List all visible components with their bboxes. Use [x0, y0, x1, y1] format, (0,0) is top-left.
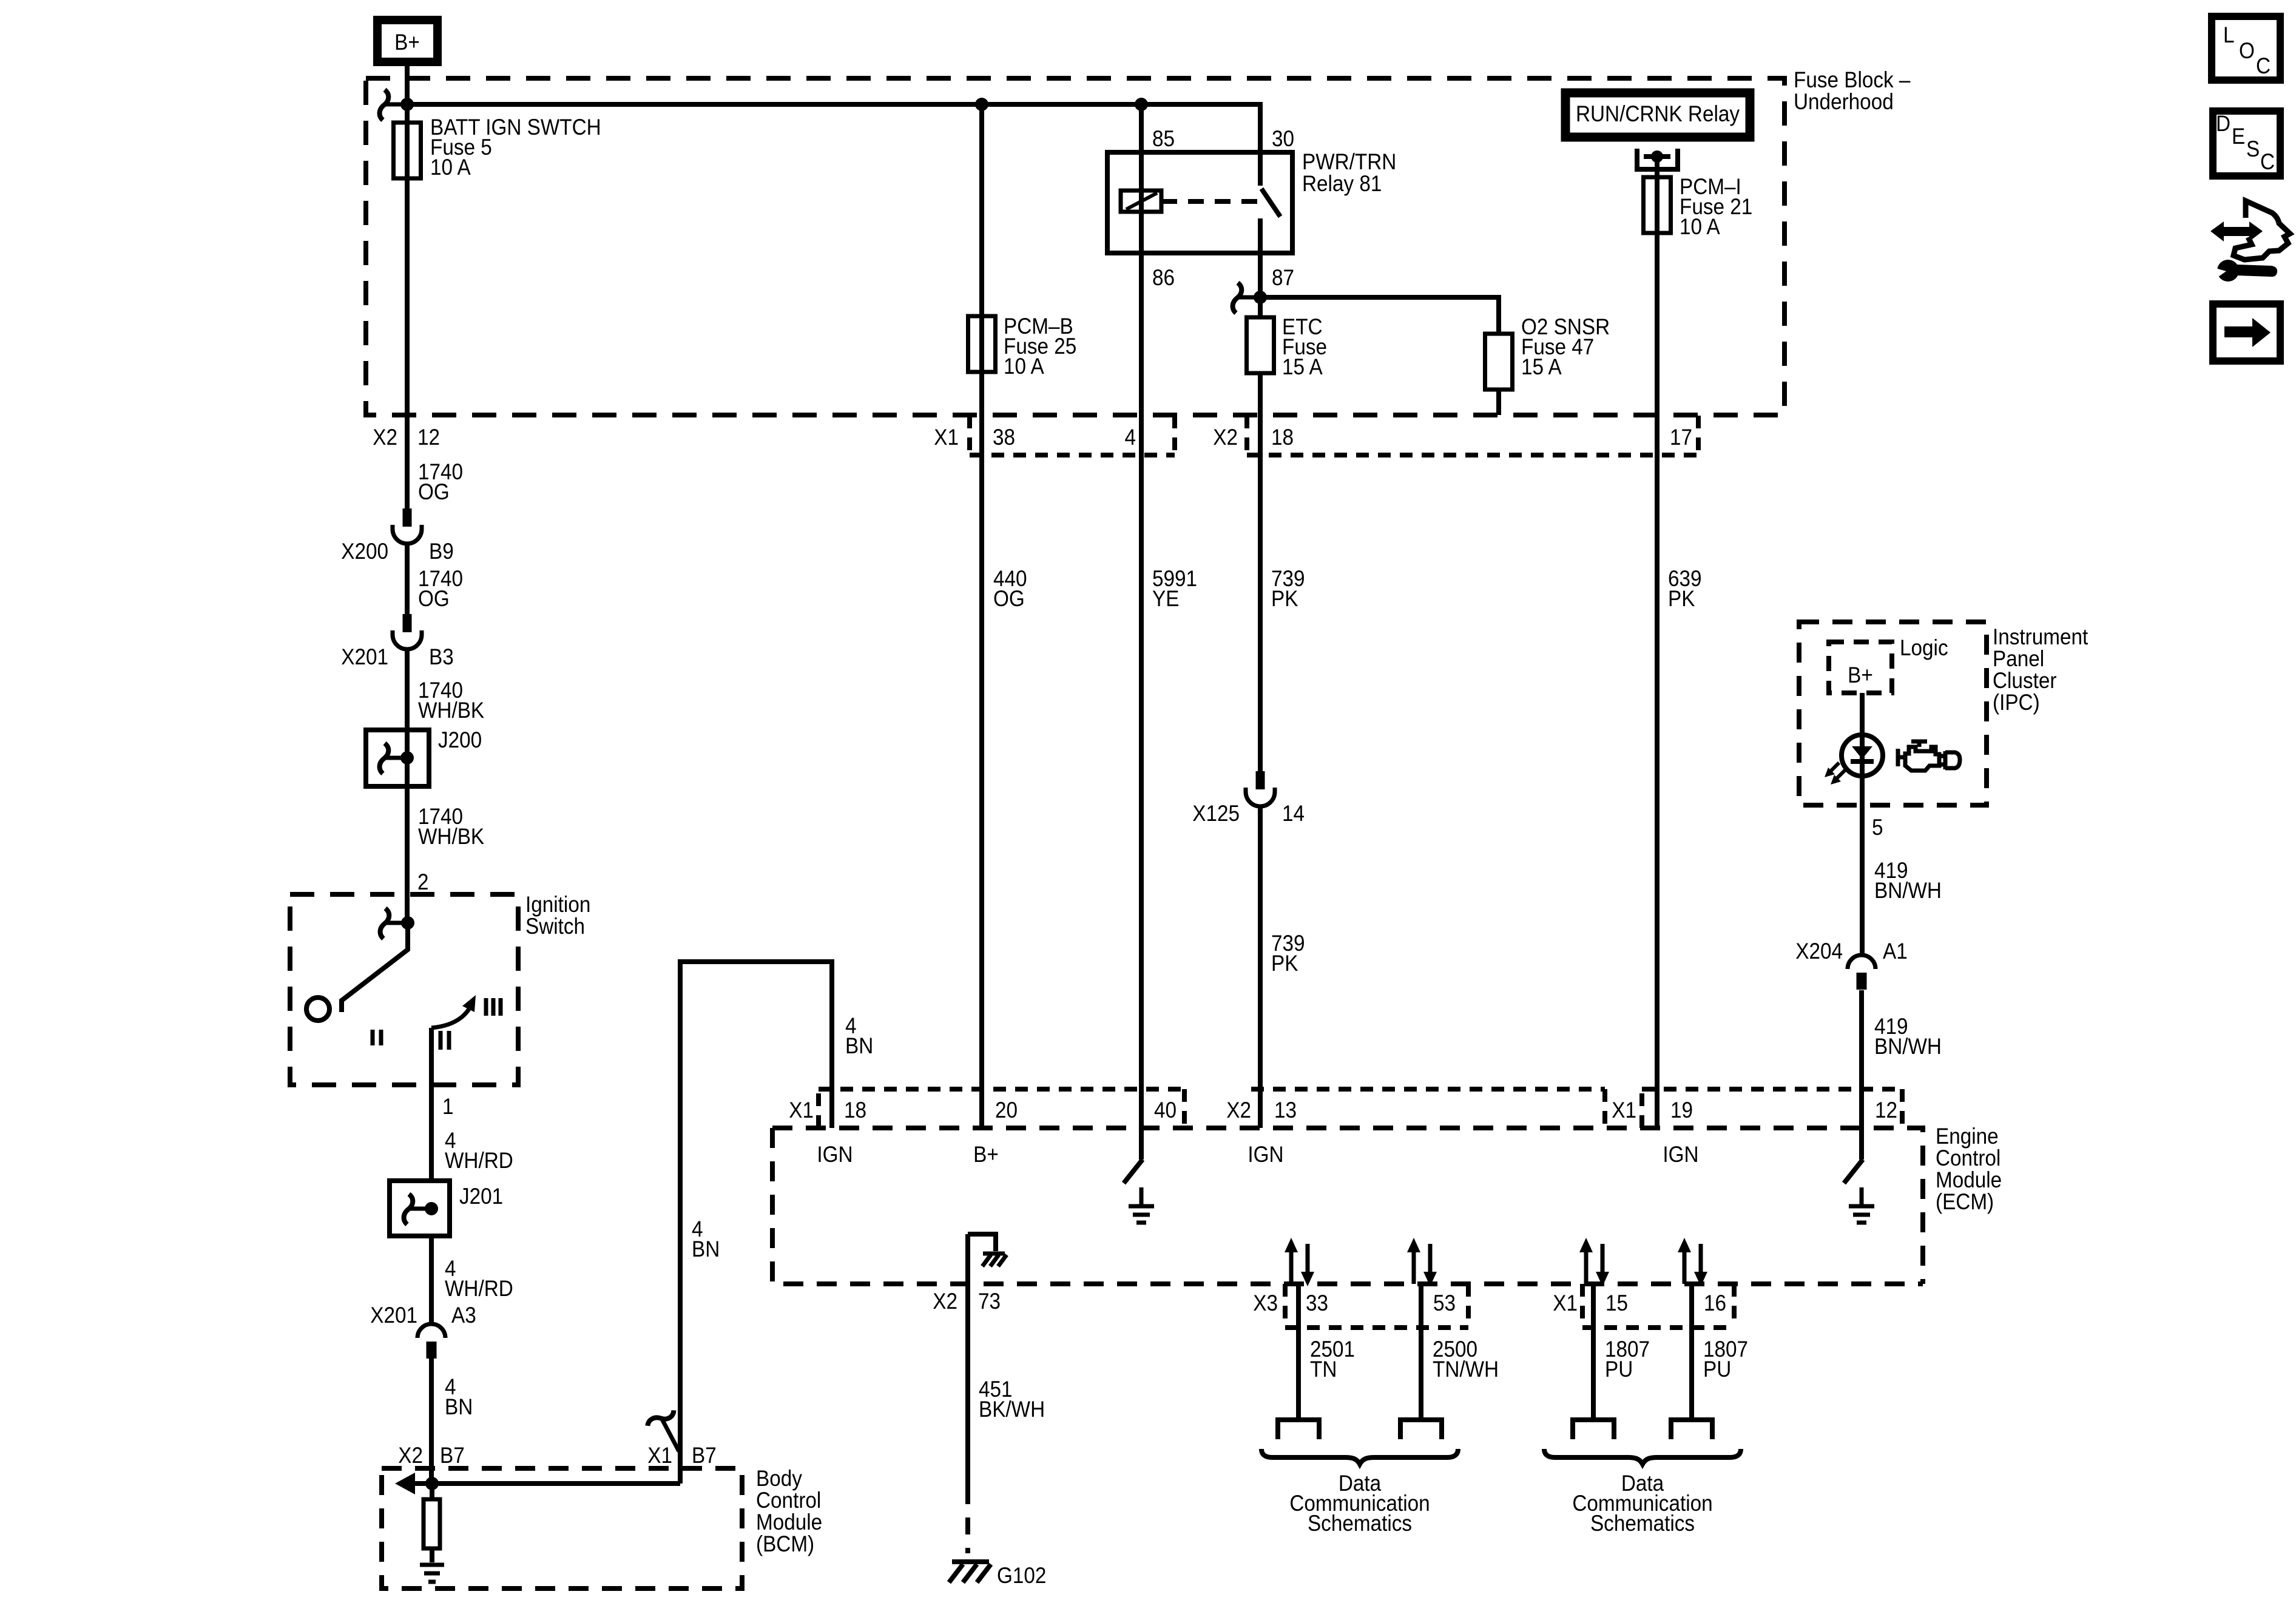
relay coil — [1121, 191, 1161, 212]
svg-text:53: 53 — [1433, 1291, 1456, 1315]
svg-text:B7: B7 — [692, 1443, 717, 1468]
ECM dashed box — [772, 1128, 1923, 1284]
svg-text:10 A: 10 A — [1680, 214, 1720, 239]
svg-text:B+: B+ — [1848, 663, 1873, 687]
inline connector X125 14 — [1256, 771, 1265, 789]
svg-text:OG: OG — [418, 586, 450, 611]
connector row X1 38 / 4 fine dashed box — [970, 416, 1175, 455]
LED light arrows — [1836, 770, 1845, 779]
ignition switch dashed box — [290, 894, 518, 1085]
svg-text:30: 30 — [1272, 126, 1294, 151]
svg-text:18: 18 — [844, 1098, 866, 1122]
svg-text:Control: Control — [1936, 1146, 2001, 1170]
junction node relay socket — [1651, 150, 1663, 163]
svg-text:Module: Module — [1936, 1167, 2002, 1192]
brace right data group — [1544, 1449, 1741, 1464]
svg-text:PK: PK — [1271, 951, 1298, 976]
relay socket bracket — [1637, 149, 1678, 169]
ECM internal switch to ground pin 12 — [1844, 1160, 1863, 1183]
ignition switch blade — [342, 923, 408, 1012]
svg-text:X201: X201 — [341, 644, 388, 669]
svg-text:85: 85 — [1152, 126, 1175, 151]
clip symbol ignition input — [380, 908, 390, 939]
svg-text:X2: X2 — [1213, 425, 1238, 450]
svg-text:IGN: IGN — [1663, 1142, 1698, 1167]
ground symbol BCM — [420, 1565, 444, 1582]
svg-text:J201: J201 — [459, 1184, 503, 1209]
wire ECM pin 73 to G102 — [965, 1234, 970, 1487]
svg-text:Switch: Switch — [525, 914, 585, 939]
svg-text:BN: BN — [845, 1033, 873, 1058]
data flow arrows pin 16 — [1683, 1251, 1687, 1284]
svg-text:X2: X2 — [373, 425, 397, 450]
wire X201 A3 to BCM — [429, 1359, 434, 1484]
icon adjust/hand with wrench — [2221, 227, 2252, 236]
svg-text:PWR/TRN: PWR/TRN — [1302, 149, 1396, 174]
LED cathode bar — [1851, 759, 1874, 764]
icon LOC box — [2212, 16, 2280, 80]
fuse F5 — [394, 123, 421, 178]
svg-text:Instrument: Instrument — [1993, 624, 2088, 649]
svg-text:1: 1 — [442, 1094, 454, 1119]
junction node at J200 splice — [400, 751, 414, 765]
svg-text:X204: X204 — [1795, 939, 1843, 964]
svg-text:WH/RD: WH/RD — [445, 1276, 513, 1301]
ECM top connector fine dashed row — [819, 1089, 1184, 1128]
svg-text:X2: X2 — [398, 1443, 423, 1468]
svg-text:Logic: Logic — [1900, 635, 1948, 660]
ground symbol ECM pin 40 — [1129, 1187, 1154, 1223]
wire serial data pin 33 — [1296, 1284, 1301, 1420]
svg-text:BN/WH: BN/WH — [1874, 1034, 1942, 1059]
wire PCM-I fuse to ECM pin 19 — [1655, 157, 1660, 1128]
wire X201 to ignition switch — [405, 650, 410, 923]
arrow continuation in BCM — [395, 1473, 415, 1494]
data flow arrows pin 53 — [1412, 1251, 1416, 1284]
svg-text:B9: B9 — [429, 539, 454, 564]
svg-text:X1: X1 — [647, 1443, 672, 1468]
svg-text:BN: BN — [445, 1394, 473, 1419]
svg-text:G102: G102 — [997, 1563, 1046, 1588]
svg-text:BN/WH: BN/WH — [1874, 878, 1942, 903]
junction node at ignition input — [401, 916, 414, 930]
junction node at pin 87 tap — [1254, 291, 1267, 304]
svg-text:C: C — [2260, 149, 2275, 174]
svg-text:Body: Body — [756, 1466, 802, 1491]
ignition switch contact circle — [306, 998, 329, 1021]
bus terminator pin 16 — [1671, 1420, 1712, 1439]
svg-text:2: 2 — [417, 869, 429, 894]
IPC logic dashed box — [1829, 642, 1892, 693]
wire IPC lamp to ECM pin 12 — [1859, 990, 1864, 1160]
wire PCM-B fuse to ECM pin 20 — [979, 104, 984, 1128]
svg-text:Underhood: Underhood — [1794, 89, 1894, 114]
svg-text:X3: X3 — [1253, 1291, 1278, 1315]
ground G102 — [952, 1559, 989, 1564]
svg-text:38: 38 — [993, 425, 1015, 450]
svg-text:PK: PK — [1668, 586, 1695, 611]
svg-text:WH/BK: WH/BK — [418, 824, 485, 849]
position III marks — [486, 998, 501, 1016]
svg-text:40: 40 — [1154, 1098, 1177, 1122]
junction node at bus feed — [400, 98, 414, 111]
inline connector X200 B9 — [403, 508, 412, 527]
IPC dashed box — [1799, 622, 1987, 805]
rotation arc to III — [431, 1009, 469, 1028]
svg-text:X125: X125 — [1192, 801, 1240, 826]
svg-text:PU: PU — [1703, 1357, 1731, 1382]
svg-text:15 A: 15 A — [1521, 354, 1562, 379]
svg-text:16: 16 — [1704, 1291, 1726, 1315]
svg-text:5: 5 — [1872, 815, 1883, 840]
junction node PCM-B feed — [975, 98, 988, 111]
svg-text:OG: OG — [418, 479, 450, 504]
inline connector X201 B3 — [403, 614, 412, 632]
svg-text:4: 4 — [1124, 425, 1136, 450]
svg-text:Engine: Engine — [1936, 1124, 1999, 1149]
svg-text:86: 86 — [1152, 265, 1175, 290]
clip symbol bus feed — [380, 90, 389, 120]
svg-text:X1: X1 — [1553, 1291, 1578, 1315]
wire serial data pin 16 — [1689, 1284, 1694, 1420]
ECM internal ground flag pin 73 — [968, 1234, 996, 1251]
svg-text:(ECM): (ECM) — [1936, 1189, 1994, 1214]
svg-text:14: 14 — [1282, 801, 1305, 826]
wire serial data pin 15 — [1591, 1284, 1596, 1420]
svg-text:RUN/CRNK Relay: RUN/CRNK Relay — [1576, 101, 1740, 126]
relay actuator dashed link — [1161, 199, 1257, 204]
inline connector X201 A3 — [417, 1324, 445, 1338]
svg-text:X2: X2 — [933, 1289, 957, 1314]
clip symbol J201 splice — [404, 1194, 413, 1224]
junction node BCM — [425, 1477, 439, 1490]
svg-text:B+: B+ — [394, 30, 420, 55]
svg-text:A3: A3 — [451, 1303, 476, 1328]
svg-text:YE: YE — [1152, 586, 1179, 611]
svg-text:Control: Control — [756, 1488, 821, 1513]
svg-text:Schematics: Schematics — [1590, 1511, 1695, 1536]
svg-text:15 A: 15 A — [1282, 354, 1323, 379]
svg-text:BN: BN — [692, 1237, 720, 1261]
svg-text:B+: B+ — [973, 1142, 999, 1167]
svg-text:C: C — [2256, 53, 2271, 78]
fuse F25 — [968, 316, 996, 372]
svg-text:(IPC): (IPC) — [1993, 690, 2040, 715]
LED triangle — [1852, 746, 1872, 759]
svg-text:X1: X1 — [789, 1098, 814, 1122]
svg-text:PK: PK — [1271, 586, 1298, 611]
svg-text:B7: B7 — [440, 1443, 465, 1468]
svg-text:13: 13 — [1274, 1098, 1297, 1122]
fuse block underhood dashed box — [366, 78, 1784, 415]
svg-text:E: E — [2232, 124, 2245, 149]
splice J201 box — [390, 1181, 450, 1236]
svg-text:A1: A1 — [1883, 939, 1908, 964]
svg-text:15: 15 — [1606, 1291, 1628, 1315]
relay switch blade — [1261, 189, 1280, 217]
bus terminator pin 53 — [1400, 1420, 1442, 1439]
svg-text:19: 19 — [1670, 1098, 1693, 1122]
svg-text:X2: X2 — [1226, 1098, 1251, 1122]
relay PWR/TRN Relay 81 box — [1107, 152, 1292, 253]
svg-text:10 A: 10 A — [430, 155, 471, 180]
svg-text:X1: X1 — [1612, 1098, 1636, 1122]
data flow arrows pin 33 — [1289, 1251, 1294, 1284]
fuse F15 ETC — [1247, 317, 1274, 373]
svg-text:73: 73 — [978, 1289, 1001, 1314]
svg-text:X1: X1 — [934, 425, 959, 450]
fuse F21 PCM-I — [1644, 177, 1671, 233]
svg-text:X201: X201 — [370, 1303, 417, 1328]
svg-text:18: 18 — [1271, 425, 1294, 450]
svg-text:D: D — [2216, 111, 2230, 136]
svg-text:BK/WH: BK/WH — [979, 1397, 1045, 1422]
svg-text:IGN: IGN — [1248, 1142, 1283, 1167]
BCM internal resistor element — [430, 1484, 434, 1499]
svg-text:WH/BK: WH/BK — [418, 698, 485, 723]
BCM internal bus wire — [413, 1481, 680, 1486]
svg-text:WH/RD: WH/RD — [445, 1148, 513, 1173]
clip symbol BCM B7 feed — [646, 1406, 676, 1430]
svg-text:Module: Module — [756, 1510, 822, 1534]
svg-text:33: 33 — [1306, 1291, 1328, 1315]
ECM internal switch to ground pin 40 — [1124, 1160, 1143, 1183]
connector row X2 18 / 17 fine dashed box — [1247, 416, 1698, 455]
wire ignition output pin 1 — [429, 1028, 434, 1181]
svg-text:TN/WH: TN/WH — [1433, 1357, 1499, 1382]
svg-text:87: 87 — [1272, 265, 1294, 290]
svg-text:B3: B3 — [429, 644, 454, 669]
wire J201 to X201 A3 — [429, 1236, 434, 1324]
svg-text:Ignition: Ignition — [525, 892, 590, 917]
splice J200 box — [366, 730, 429, 786]
bus wire to relay pin 30 — [407, 104, 1260, 186]
svg-text:17: 17 — [1670, 425, 1692, 450]
svg-text:L: L — [2223, 22, 2235, 47]
svg-text:10 A: 10 A — [1004, 354, 1044, 379]
svg-text:Panel: Panel — [1993, 646, 2044, 671]
indicator lamp LED circle — [1842, 735, 1883, 776]
svg-text:TN: TN — [1310, 1357, 1337, 1382]
wire to O2 SNSR fuse — [1260, 297, 1499, 415]
wire X200 to X201 — [405, 544, 410, 614]
ground symbol ECM pin 12 — [1849, 1187, 1874, 1223]
bus terminator pin 15 — [1573, 1420, 1614, 1439]
svg-text:J200: J200 — [438, 727, 482, 752]
connector X3 33/53 fine dashed row — [1285, 1284, 1468, 1328]
svg-text:(BCM): (BCM) — [756, 1531, 814, 1556]
data flow arrows pin 15 — [1584, 1251, 1589, 1284]
engine icon — [1898, 741, 1960, 771]
wire relay pin 87 to ETC fuse and ECM pin 13 — [1258, 218, 1263, 1128]
svg-text:X200: X200 — [341, 539, 388, 564]
clip symbol pin 87 tap — [1233, 283, 1242, 313]
wire relay coil 85/86 down to ECM pin 40 — [1139, 104, 1144, 1160]
svg-text:IGN: IGN — [817, 1142, 853, 1167]
BCM dashed box — [382, 1468, 742, 1588]
bus terminator pin 33 — [1278, 1420, 1319, 1439]
icon arrow box — [2213, 304, 2280, 361]
junction node relay coil feed — [1135, 98, 1148, 111]
position II marks right — [441, 1031, 449, 1050]
svg-text:Relay 81: Relay 81 — [1302, 171, 1382, 196]
svg-text:OG: OG — [993, 586, 1025, 611]
connector X1 15/16 fine dashed row — [1582, 1284, 1734, 1328]
icon DESC box — [2213, 111, 2280, 176]
position II marks left — [373, 1030, 381, 1045]
svg-text:S: S — [2246, 137, 2260, 161]
svg-text:Cluster: Cluster — [1993, 668, 2057, 693]
junction node at J201 splice — [425, 1202, 438, 1215]
B+ power symbol — [377, 20, 437, 62]
svg-text:PU: PU — [1605, 1357, 1633, 1382]
svg-text:Schematics: Schematics — [1308, 1511, 1412, 1536]
inline connector X204 A1 — [1848, 955, 1876, 969]
fuse F47 O2 — [1485, 334, 1513, 390]
svg-text:O: O — [2239, 38, 2255, 63]
wire BCM X1 B7 up and over to ECM pin 18 — [680, 962, 832, 1484]
wire B+ to indicator lamp — [1860, 693, 1865, 955]
wire B+ down through Fuse 5 to X200 — [405, 66, 410, 508]
clip symbol J200 splice — [380, 743, 389, 774]
svg-text:20: 20 — [995, 1098, 1018, 1122]
brace left data group — [1261, 1449, 1458, 1464]
wire serial data pin 53 — [1419, 1284, 1423, 1420]
svg-text:12: 12 — [1875, 1098, 1897, 1122]
svg-text:12: 12 — [417, 425, 440, 450]
RUN/CRNK Relay label box — [1565, 93, 1750, 137]
svg-text:Fuse Block –: Fuse Block – — [1794, 67, 1911, 92]
